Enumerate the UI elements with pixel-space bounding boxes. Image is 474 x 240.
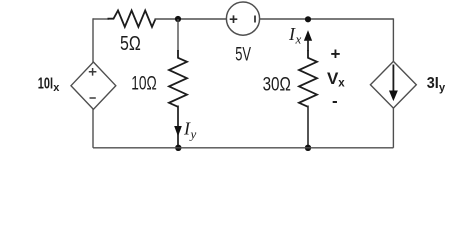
voltage label Vx: [327, 69, 345, 90]
svg-text:y: y: [189, 126, 197, 141]
svg-text:+: +: [331, 45, 341, 64]
3Iy source arrowhead: [390, 91, 397, 100]
wire right vertical lower (3Iy source to bottom corner): [392, 108, 394, 148]
value label 10ohm: [131, 73, 157, 95]
3Iy source arrow shaft (down): [392, 65, 394, 93]
node junction dot top of 10ohm branch: [175, 16, 181, 22]
node junction dot top of 30ohm branch: [305, 16, 311, 22]
resistor R3 30ohm (vertical): [299, 50, 317, 107]
wire bottom horizontal: [93, 147, 393, 149]
wire / arrow shaft Iy below 10ohm: [177, 106, 179, 148]
wire from resistor R1 to voltage source: [155, 18, 227, 20]
polarity label plus for Vx: [331, 45, 341, 64]
arrowhead current Ix (up) on 30ohm branch: [305, 32, 312, 41]
current label Iy: [183, 119, 197, 142]
10Ix source plus sign: [89, 68, 97, 76]
svg-text:x: x: [295, 32, 302, 47]
wire from voltage source to top-right corner: [260, 18, 393, 20]
node junction dot bottom of 30ohm branch: [305, 145, 311, 151]
value label 5V: [235, 43, 251, 65]
svg-text:5Ω: 5Ω: [120, 33, 141, 55]
wire left vertical upper (top corner to 10Ix source): [92, 18, 94, 62]
voltage source minus bar: [254, 16, 256, 23]
svg-text:10I: 10I: [38, 76, 53, 93]
resistor R2 10ohm (vertical): [169, 50, 187, 107]
voltage source plus sign: [230, 15, 238, 23]
wire / arrow shaft on 30ohm branch: [307, 39, 309, 51]
wire left vertical lower (10Ix source to bottom corner): [92, 109, 94, 148]
wire top-left horizontal segment: [93, 18, 109, 20]
wire 10ohm branch top lead: [177, 19, 179, 51]
source label 3Iy: [427, 75, 446, 94]
source label 10Ix: [38, 76, 60, 94]
dependent current source 3Iy diamond: [370, 61, 416, 108]
current label Ix: [288, 24, 302, 46]
dependent voltage source 10Ix diamond: [71, 62, 116, 109]
node junction dot bottom of 10ohm branch: [175, 145, 181, 151]
arrowhead current Iy (down): [175, 127, 181, 136]
svg-text:30Ω: 30Ω: [263, 73, 291, 95]
resistor R1 5ohm (top): [108, 11, 156, 27]
voltage source U1 5V circle: [226, 2, 259, 35]
svg-text:10Ω: 10Ω: [131, 73, 157, 95]
wire right vertical upper (top corner to 3Iy source): [392, 18, 394, 62]
svg-text:V: V: [327, 69, 339, 88]
svg-text:x: x: [338, 78, 345, 90]
polarity label minus for Vx: [332, 92, 338, 111]
svg-text:5V: 5V: [235, 43, 251, 65]
svg-text:y: y: [439, 82, 446, 94]
value label 5ohm: [120, 33, 141, 55]
10Ix source minus sign: [90, 97, 96, 99]
svg-text:x: x: [53, 82, 60, 94]
svg-text:3I: 3I: [427, 75, 439, 92]
wire 30ohm branch bottom lead: [307, 106, 309, 148]
svg-text:-: -: [332, 92, 338, 111]
value label 30ohm: [263, 73, 291, 95]
